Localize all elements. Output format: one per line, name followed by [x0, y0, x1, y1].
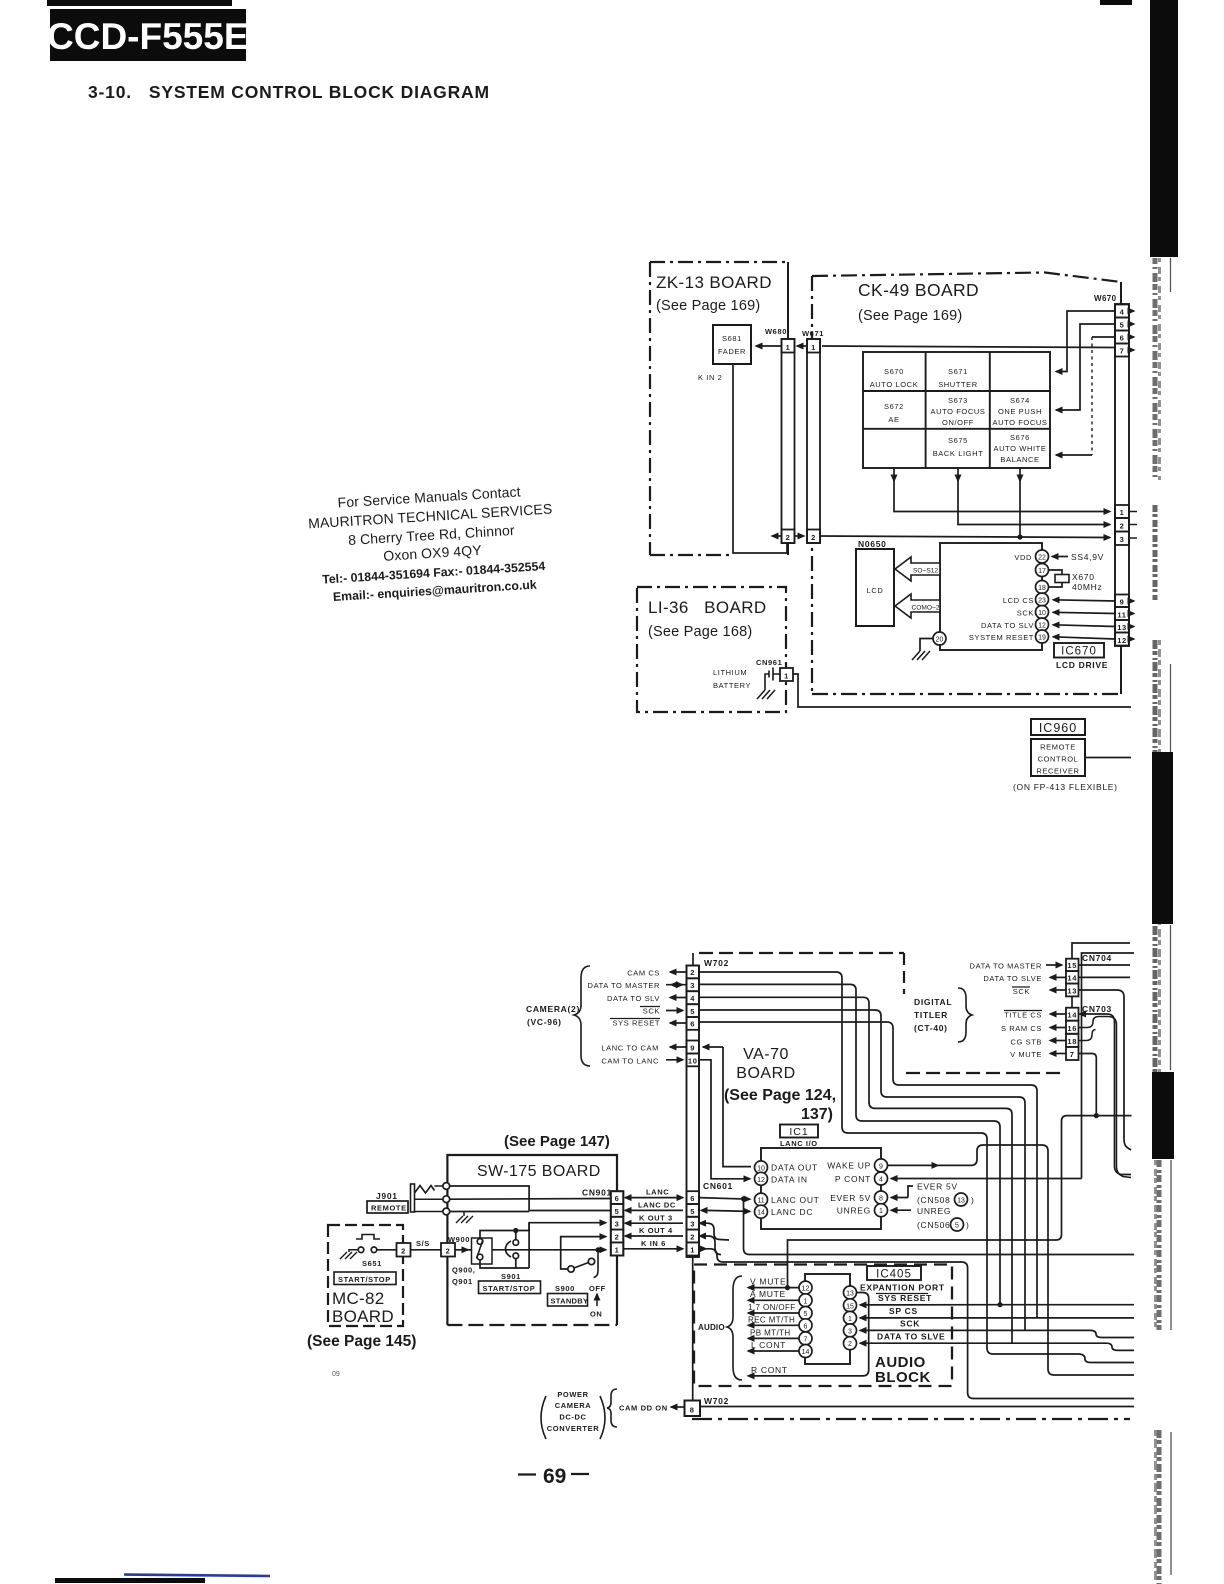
scan artifact speckle strips	[1155, 258, 1160, 1584]
svg-text:7: 7	[1070, 1050, 1075, 1059]
svg-text:12: 12	[757, 1177, 765, 1184]
service stamp text	[307, 482, 558, 606]
IC405 pin 13	[844, 1286, 857, 1299]
switch S674	[992, 396, 1047, 427]
IC405 pin 5 1,7 ON/OFF	[748, 1303, 812, 1320]
IC670 pin 17	[1036, 564, 1049, 577]
wire CN601-2 curve	[700, 1236, 722, 1255]
svg-text:11: 11	[757, 1198, 764, 1205]
label START/STOP SW175	[479, 1281, 541, 1294]
titler signal labels	[970, 962, 1042, 1060]
svg-text:8: 8	[879, 1196, 883, 1203]
svg-text:(CN506: (CN506	[917, 1220, 951, 1230]
svg-text:09: 09	[332, 1371, 340, 1378]
svg-text:2: 2	[811, 533, 816, 542]
connector W900 pin 2	[441, 1235, 470, 1257]
svg-text:LANC DC: LANC DC	[771, 1207, 813, 1217]
svg-text:POWER: POWER	[557, 1390, 588, 1399]
svg-text:14: 14	[757, 1210, 765, 1217]
wire W671-1 to W670-7	[822, 346, 1115, 348]
svg-text:SS4,9V: SS4,9V	[1071, 552, 1104, 562]
svg-text:W670: W670	[1094, 294, 1117, 303]
svg-text:1: 1	[879, 1208, 883, 1215]
ZK-13 board outline	[650, 262, 788, 555]
scan artifact black block	[1152, 1072, 1174, 1159]
W670 right stubs	[1129, 311, 1137, 639]
svg-text:18: 18	[1038, 585, 1046, 592]
svg-text:CN901: CN901	[582, 1188, 612, 1198]
svg-text:(See Page 169): (See Page 169)	[858, 308, 962, 324]
svg-text:EVER 5V: EVER 5V	[917, 1182, 958, 1192]
switch S672	[884, 402, 904, 424]
ZK-13 board label	[656, 273, 772, 314]
svg-text:9: 9	[690, 1044, 695, 1053]
wire grid col1 to W670-1	[894, 468, 1110, 512]
wire W900 to Q900	[455, 1249, 474, 1251]
svg-text:W671: W671	[802, 329, 824, 338]
svg-text:2: 2	[401, 1247, 406, 1256]
svg-text:MC-82: MC-82	[332, 1289, 385, 1308]
net LANC DC	[625, 1201, 683, 1211]
svg-text:TITLER: TITLER	[914, 1010, 948, 1020]
CK-49 board label	[858, 280, 979, 324]
IC1 pin 14 LANC DC	[755, 1205, 814, 1218]
SW-175 board label	[477, 1133, 610, 1180]
svg-text:CG STB: CG STB	[1010, 1038, 1042, 1047]
svg-text:CONTROL: CONTROL	[1038, 755, 1079, 764]
svg-text:LCD: LCD	[867, 586, 884, 595]
MC-82 board label	[307, 1289, 416, 1378]
wire bus W702-6	[699, 1022, 1037, 1318]
switch S651	[349, 1235, 382, 1269]
brace power converter	[607, 1389, 617, 1427]
IC670 reference label	[1054, 643, 1108, 670]
IC405 pin 3 SCK	[844, 1319, 1135, 1338]
svg-text:(VC-96): (VC-96)	[527, 1017, 562, 1027]
svg-text:CAM CS: CAM CS	[627, 969, 660, 978]
svg-text:CN601: CN601	[703, 1181, 733, 1191]
audio block title	[875, 1354, 931, 1386]
svg-text:2: 2	[786, 533, 791, 542]
svg-text:Q900,: Q900,	[452, 1266, 475, 1275]
switch S681 FADER	[713, 325, 751, 364]
svg-text:6: 6	[690, 1020, 695, 1029]
digital titler labels	[914, 997, 952, 1033]
svg-text:VDD: VDD	[1014, 553, 1032, 562]
wire W680-2 to W671-2	[795, 535, 805, 537]
svg-text:2: 2	[690, 1232, 695, 1241]
svg-text:23: 23	[1038, 598, 1046, 605]
svg-text:CAMERA: CAMERA	[555, 1401, 592, 1410]
IC670 pin 20	[933, 632, 946, 645]
svg-text:6: 6	[1120, 334, 1125, 343]
svg-text:20: 20	[936, 637, 944, 644]
net K IN 6	[623, 1239, 683, 1249]
net P CONT	[891, 953, 1134, 1179]
net V MUTE	[785, 1116, 1132, 1291]
svg-text:S670: S670	[884, 367, 904, 376]
svg-text:IC670: IC670	[1061, 646, 1097, 658]
svg-text:LITHIUM: LITHIUM	[713, 668, 747, 677]
wire grid col3 to node	[1017, 468, 1022, 540]
svg-text:(See Page 168): (See Page 168)	[648, 624, 752, 640]
svg-text:BOARD: BOARD	[332, 1307, 394, 1326]
svg-text:S675: S675	[948, 436, 968, 445]
IC405 pin 12 V MUTE	[748, 1277, 812, 1295]
svg-text:5: 5	[955, 1223, 959, 1230]
IC405 pin 14 L CONT	[748, 1340, 812, 1358]
IC1 pin 12 DATA IN	[755, 1172, 808, 1185]
svg-text:BATTERY: BATTERY	[713, 681, 751, 690]
remote control receiver block	[1031, 739, 1085, 776]
svg-text:): )	[971, 1195, 975, 1205]
wire main to CN901-1	[598, 1249, 606, 1251]
svg-text:S900: S900	[555, 1284, 575, 1293]
svg-text:AUDIO: AUDIO	[698, 1323, 725, 1332]
svg-text:SP CS: SP CS	[889, 1306, 918, 1316]
wire W702-9 from IC1	[703, 1047, 751, 1167]
svg-text:5: 5	[690, 1207, 695, 1216]
wire W670-4 to grid row1	[1056, 311, 1115, 372]
scan artifact thin vertical line	[1170, 258, 1173, 1575]
net EVER 5V	[891, 1182, 975, 1207]
svg-text:13: 13	[1067, 986, 1077, 995]
net LANC branch	[744, 1199, 1135, 1255]
svg-text:CN961: CN961	[756, 658, 782, 667]
svg-text:DATA TO SLV: DATA TO SLV	[607, 994, 660, 1003]
svg-text:4: 4	[690, 994, 695, 1003]
svg-text:6: 6	[615, 1194, 620, 1203]
net K OUT 4	[625, 1226, 683, 1236]
LI-36 board outline	[637, 587, 786, 712]
transistor Q900,Q901	[452, 1238, 492, 1286]
MC-82 board outline	[328, 1225, 403, 1326]
page header black strip	[47, 0, 232, 6]
wire CN601-1 curve	[699, 1249, 1134, 1399]
svg-text:2: 2	[615, 1232, 620, 1241]
svg-text:LANC DC: LANC DC	[638, 1201, 676, 1210]
svg-text:12: 12	[1117, 636, 1127, 645]
wire bus W702-5	[699, 1010, 1025, 1330]
wires S901/Q900 to K OUT 3	[480, 1223, 606, 1240]
svg-text:4: 4	[879, 1177, 883, 1184]
svg-text:9: 9	[879, 1163, 883, 1170]
IC670 pin 18	[1036, 581, 1049, 594]
svg-text:DATA TO MASTER: DATA TO MASTER	[588, 981, 660, 990]
switch S900	[555, 1247, 606, 1293]
LI-36 board label	[648, 598, 767, 640]
svg-text:AE: AE	[888, 415, 899, 424]
section title	[88, 82, 490, 102]
net S/S	[411, 1239, 442, 1250]
wire CN704 top	[1072, 943, 1130, 959]
svg-text:ON: ON	[590, 1310, 602, 1319]
IC1 pin 4 P CONT	[835, 1172, 888, 1185]
svg-text:S651: S651	[362, 1259, 382, 1268]
svg-text:7: 7	[1120, 347, 1125, 356]
wire W702-10 to IC1	[699, 1060, 750, 1179]
svg-text:K OUT 3: K OUT 3	[639, 1213, 673, 1222]
titler pin wires	[1046, 965, 1066, 1054]
wires J901 to board	[415, 1186, 443, 1212]
power net SS4,9V	[1052, 552, 1104, 562]
svg-text:(CT-40): (CT-40)	[914, 1023, 948, 1033]
svg-text:LCD CS: LCD CS	[1003, 596, 1034, 605]
svg-text:12: 12	[1038, 623, 1046, 630]
svg-text:J901: J901	[376, 1191, 398, 1201]
VA-70 board outline	[692, 953, 1130, 1419]
svg-text:DATA TO SLVE: DATA TO SLVE	[983, 974, 1042, 983]
svg-text:(See Page 147): (See Page 147)	[504, 1133, 610, 1150]
svg-text:S RAM CS: S RAM CS	[1001, 1024, 1042, 1033]
CK-49 board outline	[812, 273, 1121, 695]
S900 ON arrow	[590, 1294, 602, 1319]
scan artifact right black bar	[1150, 0, 1178, 257]
svg-text:OFF: OFF	[589, 1284, 606, 1293]
IC405 pin 6 REC MT/TH	[748, 1315, 812, 1332]
wire bus W702-3	[699, 984, 1000, 1304]
svg-text:PB MT/TH: PB MT/TH	[750, 1328, 791, 1337]
svg-text:LANC I/O: LANC I/O	[780, 1139, 818, 1148]
svg-text:3: 3	[848, 1328, 852, 1335]
svg-text:BALANCE: BALANCE	[1000, 455, 1039, 464]
wire bus W702-2	[699, 972, 1134, 1363]
svg-text:CAMERA(2): CAMERA(2)	[526, 1004, 580, 1014]
svg-text:CAM TO LANC: CAM TO LANC	[601, 1057, 659, 1066]
svg-text:UNREG: UNREG	[837, 1206, 871, 1216]
svg-text:5: 5	[1120, 321, 1125, 330]
switch grid CK-49	[863, 352, 1050, 468]
svg-text:X670: X670	[1072, 572, 1095, 582]
parentheses power converter	[541, 1396, 605, 1439]
ground at jack sleeve	[456, 1212, 473, 1224]
camera interface labels	[588, 969, 660, 1066]
svg-text:S673: S673	[948, 396, 968, 405]
overlines SCK / SYS RESET	[610, 1007, 660, 1019]
svg-text:FADER: FADER	[718, 347, 746, 356]
wire S651 to pin2	[377, 1249, 397, 1251]
svg-text:VA-70: VA-70	[743, 1046, 789, 1063]
wire jack ring to CN901-6	[450, 1198, 611, 1201]
svg-text:SW-175 BOARD: SW-175 BOARD	[477, 1163, 601, 1180]
svg-text:15: 15	[1067, 961, 1077, 970]
svg-text:CONVERTER: CONVERTER	[547, 1424, 600, 1433]
IC405 pin 1b SP CS	[844, 1306, 1135, 1324]
svg-text:8: 8	[690, 1406, 695, 1415]
wire CN703-14 descent	[1080, 1014, 1132, 1175]
svg-text:10: 10	[757, 1165, 765, 1172]
IC670 pin 23 LCD CS	[1003, 593, 1049, 606]
svg-text:V MUTE: V MUTE	[1010, 1050, 1042, 1059]
svg-text:12: 12	[802, 1286, 810, 1293]
svg-text:LCD DRIVE: LCD DRIVE	[1056, 660, 1108, 670]
svg-text:R CONT: R CONT	[751, 1365, 788, 1375]
VA-70 board label	[724, 1046, 836, 1123]
svg-text:LANC: LANC	[646, 1188, 669, 1197]
svg-text:N0650: N0650	[858, 539, 887, 549]
svg-text:7: 7	[804, 1336, 808, 1343]
connector CN901	[582, 1188, 623, 1256]
connector CN704	[1066, 953, 1112, 996]
svg-text:Oxon OX9 4QY: Oxon OX9 4QY	[383, 542, 483, 564]
svg-text:16: 16	[1067, 1024, 1077, 1033]
connector CN961	[756, 658, 793, 681]
brace digital titler	[958, 988, 972, 1042]
svg-text:5: 5	[804, 1311, 808, 1318]
svg-text:AUTO FOCUS: AUTO FOCUS	[930, 407, 985, 416]
svg-text:BLOCK: BLOCK	[875, 1369, 931, 1386]
svg-text:(See Page 124,: (See Page 124,	[724, 1087, 836, 1104]
wire W670-13 to pin12	[1053, 625, 1115, 627]
battery lithium	[713, 668, 780, 691]
wire CN601-3 curve	[700, 1223, 730, 1240]
wire W670-12 to pin19	[1053, 637, 1115, 639]
svg-text:S674: S674	[1010, 396, 1030, 405]
svg-text:IC960: IC960	[1039, 721, 1077, 735]
svg-text:19: 19	[1038, 635, 1046, 642]
connector CN601 pins	[687, 1181, 733, 1256]
ground at battery	[757, 690, 775, 699]
wire jack sleeve	[450, 1211, 529, 1213]
switch S673	[930, 396, 985, 427]
svg-text:5: 5	[690, 1007, 695, 1016]
IC670 pin 22 VDD	[1014, 550, 1048, 563]
svg-text:SO~S12: SO~S12	[913, 567, 938, 574]
svg-text:BOARD: BOARD	[736, 1065, 795, 1082]
svg-text:69: 69	[543, 1465, 566, 1488]
wire K IN 2 from S681 to W680-2	[733, 364, 787, 553]
wire W670-5 to grid row2	[1056, 324, 1115, 410]
svg-text:3-10. SYSTEM CONTROL BLOCK D: 3-10. SYSTEM CONTROL BLOCK DIAGRAM	[88, 82, 490, 102]
wire CN961 to right edge	[793, 674, 1131, 707]
scan artifact top strip	[1100, 0, 1132, 5]
svg-text:A MUTE: A MUTE	[750, 1289, 786, 1299]
svg-text:14: 14	[1067, 1011, 1077, 1020]
signal arrow COMO~2	[895, 594, 940, 618]
connector W680	[765, 327, 795, 543]
wire CN601 column to W702-8	[692, 1256, 694, 1401]
svg-text:SYS RESET: SYS RESET	[613, 1019, 661, 1028]
svg-text:S901: S901	[501, 1272, 521, 1281]
svg-text:DIGITAL: DIGITAL	[914, 997, 952, 1007]
IC1 pin 11 LANC OUT	[755, 1193, 820, 1206]
scan artifact bottom-left strip	[55, 1578, 205, 1583]
IC1 pin 8 EVER 5V	[830, 1191, 887, 1204]
LCD display N0650	[856, 539, 894, 626]
svg-text:IC1: IC1	[789, 1126, 808, 1138]
net WAKE UP	[888, 1145, 1135, 1375]
svg-text:CAM DD ON: CAM DD ON	[619, 1404, 668, 1413]
svg-text:K IN 2: K IN 2	[698, 373, 722, 382]
svg-text:11: 11	[1117, 611, 1126, 620]
svg-text:S672: S672	[884, 402, 904, 411]
svg-text:13: 13	[957, 1198, 965, 1205]
crystal X670 40MHz	[1049, 570, 1103, 592]
svg-text:S671: S671	[948, 367, 968, 376]
connector W702 pin 8	[685, 1396, 730, 1416]
wire CN703-18 curve	[1079, 1030, 1096, 1041]
wire W670-6 to grid row3	[1056, 337, 1115, 455]
expansion port label	[860, 1283, 945, 1293]
svg-text:W702: W702	[704, 1396, 729, 1406]
svg-text:3: 3	[690, 981, 695, 990]
switch S675	[933, 436, 984, 458]
IC1 reference label	[780, 1125, 818, 1149]
svg-text:1: 1	[1120, 508, 1125, 517]
IC405 reference label	[867, 1266, 921, 1281]
svg-text:SCK: SCK	[1017, 609, 1034, 618]
wires CN704 right	[1079, 965, 1132, 1150]
wire stub left of W680-2	[772, 535, 781, 537]
wire CN703-16 curve	[1079, 1017, 1132, 1178]
IC1 pin 10 DATA OUT	[755, 1161, 818, 1174]
svg-text:1: 1	[690, 1245, 695, 1254]
svg-text:BACK LIGHT: BACK LIGHT	[933, 449, 984, 458]
wire W670-9 to pin23	[1053, 600, 1115, 601]
svg-text:DC-DC: DC-DC	[559, 1413, 586, 1422]
svg-text:22: 22	[1038, 555, 1046, 562]
wire S900 to K OUT 4	[561, 1237, 606, 1269]
svg-text:4: 4	[1120, 308, 1125, 317]
node K IN 2	[698, 373, 722, 382]
IC405 expansion port block	[805, 1274, 850, 1364]
svg-text:(See Page 169): (See Page 169)	[656, 298, 760, 314]
svg-text:TITLE CS: TITLE CS	[1004, 1011, 1042, 1020]
audio block outline	[694, 1265, 952, 1387]
svg-text:S/S: S/S	[416, 1239, 430, 1248]
connector W670	[1094, 294, 1129, 646]
svg-text:9: 9	[1120, 598, 1125, 607]
signal arrow SO~S12	[895, 557, 940, 581]
svg-text:ONE PUSH: ONE PUSH	[998, 407, 1042, 416]
wire Q900 to S900 fixed	[492, 1249, 598, 1251]
svg-text:S681: S681	[722, 334, 742, 343]
svg-text:5: 5	[615, 1207, 620, 1216]
svg-text:1: 1	[784, 672, 789, 681]
svg-text:WAKE UP: WAKE UP	[827, 1161, 871, 1171]
svg-text:Q901: Q901	[452, 1277, 473, 1286]
svg-text:W680: W680	[765, 327, 787, 336]
svg-text:CK-49 BOARD: CK-49 BOARD	[858, 280, 979, 300]
scan artifact blue line	[124, 1575, 270, 1577]
svg-text:V MUTE: V MUTE	[750, 1277, 786, 1287]
svg-text:ON/OFF: ON/OFF	[942, 418, 974, 427]
switch S901	[501, 1240, 521, 1281]
wire bus W702-4	[699, 997, 1012, 1343]
svg-text:18: 18	[1067, 1037, 1077, 1046]
svg-text:START/STOP: START/STOP	[483, 1284, 536, 1293]
svg-text:CN703: CN703	[1082, 1004, 1112, 1014]
scan artifact black block upper	[1152, 752, 1173, 924]
svg-text:CCD-F555E: CCD-F555E	[47, 16, 249, 57]
svg-text:6: 6	[804, 1323, 808, 1330]
svg-text:COMO~2: COMO~2	[911, 604, 939, 611]
svg-text:10: 10	[1038, 610, 1046, 617]
wire CN601-5 to IC1-14	[701, 1210, 750, 1211]
svg-text:LI-36 BOARD: LI-36 BOARD	[648, 598, 767, 617]
IC405 pin 15 SYS RESET	[844, 1293, 1135, 1312]
svg-text:2: 2	[1120, 522, 1125, 531]
net CAM DD ON	[619, 1404, 1134, 1413]
switch S671	[938, 367, 978, 389]
svg-text:ZK-13 BOARD: ZK-13 BOARD	[656, 273, 772, 292]
svg-text:W702: W702	[704, 958, 729, 968]
IC405 pin 1 A MUTE	[748, 1289, 812, 1307]
svg-text:EXPANTION PORT: EXPANTION PORT	[860, 1283, 945, 1293]
connector W702 upper	[687, 958, 730, 1257]
svg-text:40MHz: 40MHz	[1072, 582, 1102, 592]
svg-text:6: 6	[690, 1194, 695, 1203]
